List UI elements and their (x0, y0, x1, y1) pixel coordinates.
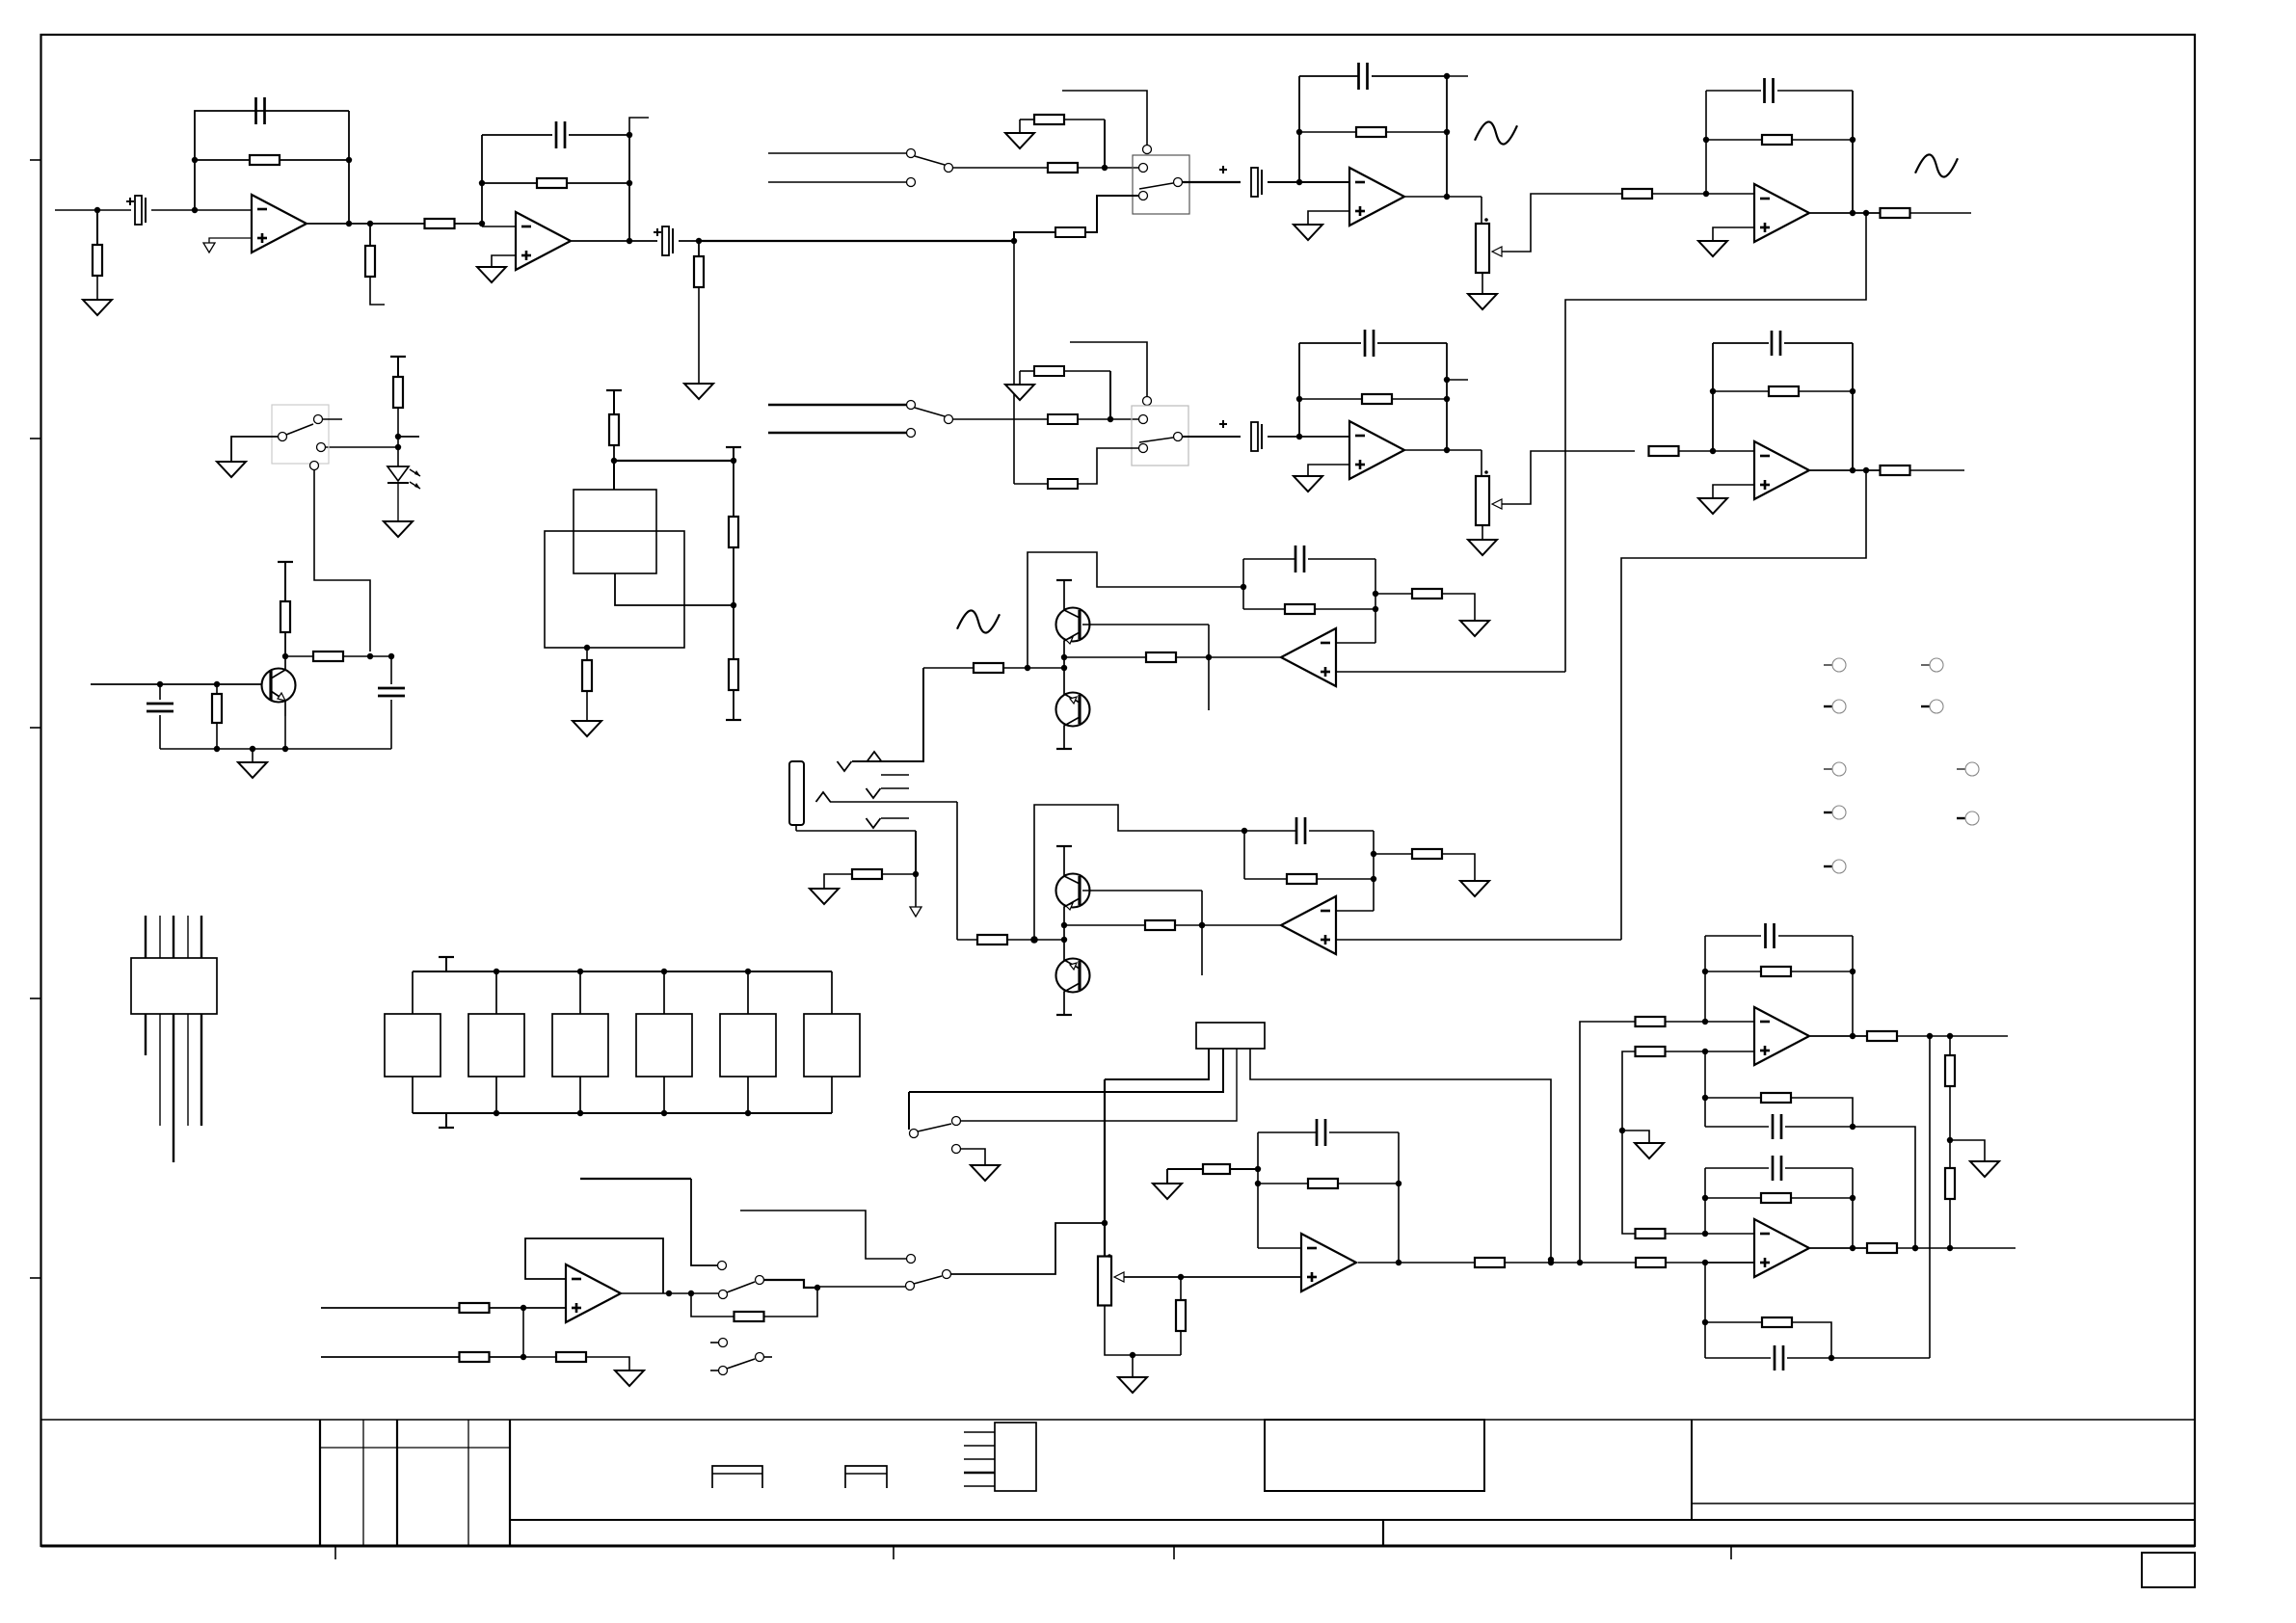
wire output 3b (1405, 449, 1482, 451)
wire lower RC (1704, 1263, 1706, 1358)
op-amp U6b (1281, 896, 1336, 954)
wire main bus (699, 240, 1014, 242)
wire (1268, 436, 1349, 438)
resistor R29 (1064, 656, 1146, 658)
ground (1005, 385, 1034, 400)
op-amp U6a (1281, 628, 1336, 686)
wire feedback tap (1028, 552, 1243, 668)
wire noninverting ground (209, 238, 252, 243)
ground (615, 1370, 644, 1386)
wire output 3 (1405, 196, 1482, 198)
sine symbol (1915, 154, 1958, 176)
mute switch (908, 1092, 910, 1130)
resistor R24 (285, 655, 313, 657)
op-amp U9 (1754, 1219, 1809, 1277)
resistor R45 (1167, 1168, 1203, 1170)
wire (1268, 181, 1349, 183)
connector P1 (131, 958, 217, 1014)
wire emitter junction (1063, 657, 1065, 673)
resistor R48 (1636, 1017, 1666, 1026)
resistor R52 (1705, 1097, 1761, 1099)
resistor R7 (953, 167, 1048, 169)
resistor R50 (1636, 1047, 1666, 1056)
capacitor block X6 (804, 1014, 860, 1077)
wire stage4b to headphone loop (1621, 470, 1866, 940)
capacitor C1 (135, 196, 142, 225)
wire plus (1705, 1262, 1754, 1264)
capacitor C6 (1299, 75, 1358, 77)
potentiometer RV3 (1104, 1223, 1106, 1257)
wire feedback rail 7L (1257, 1132, 1259, 1248)
transistor Q3 (1056, 693, 1090, 727)
wire tap (580, 1178, 691, 1180)
wire input (55, 209, 131, 211)
wire input line B2 (768, 432, 906, 434)
wire output 4b (1810, 469, 1880, 471)
wire emitter bus (160, 748, 391, 750)
resistor R39 (321, 1307, 460, 1309)
capacitor C2 (254, 97, 257, 124)
wire pot bottom (1105, 1305, 1181, 1355)
wire output U10 (622, 1292, 718, 1294)
ground (1005, 133, 1034, 148)
capacitor C3 (482, 134, 552, 136)
wire feedback left rail (195, 111, 349, 210)
divider resistors (1949, 1036, 1951, 1055)
sine symbol (957, 610, 1000, 632)
supply T right (726, 446, 741, 448)
wire ground tap (1622, 1131, 1649, 1143)
capacitor C13 (1243, 558, 1295, 560)
title box (1265, 1420, 1484, 1491)
wire U8 minus feed (1580, 1022, 1635, 1263)
ground (384, 521, 413, 537)
capacitor C11 (159, 684, 161, 700)
wire (817, 1286, 905, 1288)
transistor Q4 (1056, 874, 1090, 908)
supply T (606, 389, 622, 391)
resistor R44 (1258, 1183, 1308, 1184)
resistor R49 (1705, 971, 1761, 972)
resistor R17 (1299, 398, 1362, 400)
switch lever S1 (1139, 183, 1173, 189)
wire output column A (1929, 1036, 1931, 1358)
ground (971, 1165, 1000, 1181)
ground (810, 889, 839, 904)
wire noninverting ground 2 (492, 255, 516, 267)
switch box S2 (1132, 406, 1188, 466)
resistor R37 (882, 873, 916, 875)
wire base rail 2 (1201, 891, 1203, 975)
wire NO contact (764, 1280, 817, 1288)
wire feedback rail 4L (1705, 91, 1707, 194)
ground (1153, 1184, 1182, 1199)
resistor R2 (195, 159, 250, 161)
aux circles (710, 1342, 718, 1344)
resistor R56 (1705, 1321, 1762, 1323)
node stage2 in (479, 221, 485, 226)
capacitor block X2 (468, 1014, 524, 1077)
switch lever S2 (1139, 438, 1173, 442)
resistor R18 (1649, 446, 1679, 456)
wire feedback right rail 2 (628, 135, 630, 241)
resistor R21 (393, 377, 403, 408)
ground (1460, 621, 1489, 636)
wire wiper (1124, 1276, 1301, 1278)
op-amp U8 (1754, 1007, 1809, 1065)
switch lever (914, 1276, 942, 1284)
wire (1853, 1127, 1915, 1248)
wire output U7 (1358, 1262, 1475, 1264)
wire ground tap (1950, 1140, 1985, 1161)
wire sleeve down (915, 831, 917, 874)
capacitor C16 (1705, 935, 1761, 937)
wire port arrow (915, 874, 917, 907)
wire emitter junction 2 (1063, 925, 1065, 940)
op-amp U5a (1754, 184, 1809, 242)
resistor R26 (733, 461, 734, 517)
capacitor C4 (662, 226, 669, 255)
wire to pot (1481, 197, 1482, 224)
wire feedback rail 4R (1852, 91, 1854, 213)
resistor R8 (1020, 119, 1034, 120)
wire out down (691, 1293, 734, 1317)
wire pin1 (1105, 1049, 1209, 1079)
wire pin3 (961, 1049, 1237, 1121)
sine symbol (1475, 121, 1517, 144)
op-amp U7 (1301, 1234, 1356, 1291)
supply T (1056, 1014, 1072, 1016)
capacitor block X3 (552, 1014, 608, 1077)
wire noninverting 2 (1336, 939, 1621, 941)
capacitor C8 (1251, 422, 1258, 451)
wire mid RC (1704, 1051, 1706, 1098)
resistor R10 (1299, 131, 1356, 133)
wire feedback rail 9R (1852, 1168, 1854, 1248)
switch lever (915, 156, 945, 165)
resistor R23 (282, 653, 288, 659)
resistor R22 (216, 684, 218, 693)
connector small (995, 1423, 1036, 1491)
resistor R25 (609, 414, 619, 445)
capacitor C17 (1704, 1098, 1706, 1127)
ground (1460, 881, 1489, 896)
resistor R31 (1243, 608, 1285, 610)
wire output (307, 223, 425, 225)
switch box S3 (272, 405, 329, 464)
box B (545, 531, 684, 648)
ground (477, 267, 506, 282)
switch lever 2 (915, 408, 945, 416)
wire feedback left rail 2 (481, 135, 483, 226)
wire (1166, 1169, 1168, 1184)
resistor R46 (1475, 1258, 1505, 1267)
resistor R14 (953, 418, 1048, 420)
jack tip contact (838, 761, 852, 771)
wire feedback rail 5R (1375, 559, 1376, 643)
wire output U9 (1810, 1247, 1867, 1249)
ground (83, 300, 112, 315)
capacitor C12 (390, 656, 392, 684)
bracket symbol 2 (845, 1466, 887, 1488)
capacitor block X5 (720, 1014, 776, 1077)
wire switch out (1183, 181, 1241, 183)
wire output 4 (1810, 212, 1880, 214)
title block (41, 1419, 2196, 1421)
switch lever S3 (286, 424, 313, 435)
corner box (2142, 1553, 2195, 1587)
node input (94, 207, 100, 213)
wire bus down to ch2 (1013, 241, 1015, 484)
op-amp U1 (252, 195, 307, 253)
resistor R54 (1636, 1229, 1666, 1238)
resistor R55 (1867, 1243, 1897, 1253)
ground (1635, 1143, 1664, 1158)
resistor R36 to ground (1374, 853, 1412, 855)
wire relay feed (1062, 91, 1147, 145)
jack sleeve contact (867, 818, 881, 828)
wire to relay column (951, 1223, 1105, 1274)
wire NC path (1085, 196, 1138, 232)
wire noninverting ground 4 (1308, 211, 1349, 225)
wire feedback rail 6R (1373, 831, 1375, 911)
ground (1970, 1161, 1999, 1177)
resistor R40 (321, 1356, 460, 1358)
op-amp U2 (482, 226, 516, 227)
wire feedback right rail (348, 111, 350, 224)
supply T (1056, 845, 1072, 847)
box A (574, 490, 656, 573)
resistor R1 (96, 210, 98, 245)
test point circles (1824, 664, 1832, 666)
supply T (390, 356, 406, 358)
wire base (1082, 624, 1209, 625)
capacitor C19 (1705, 1357, 1771, 1359)
resistor R4 (425, 219, 455, 228)
transistor Q1 (262, 669, 296, 703)
wire input line B (768, 181, 906, 183)
wire pot bottom (1482, 273, 1483, 294)
capacitor C14 (1244, 830, 1296, 832)
ground (252, 749, 254, 762)
wire relay feed (740, 1211, 906, 1259)
wire feedback rail 4L b (1712, 343, 1714, 451)
resistor R16 (1048, 479, 1078, 489)
switch lever (719, 1290, 728, 1299)
supply T bottom (726, 719, 741, 721)
wire wiper (1502, 194, 1622, 252)
wire feedback tap 2 (1034, 805, 1244, 940)
wire feedback rail 3R b (1446, 343, 1448, 450)
wire cross couple column (1622, 1051, 1635, 1234)
wire feedback rail 9L (1704, 1168, 1706, 1234)
resistor R51 (1867, 1031, 1897, 1041)
wire main column (1104, 1079, 1106, 1223)
wire NC path 2 (1078, 448, 1138, 484)
capacitor C7 (1706, 90, 1761, 92)
wire feedback rail 4R b (1852, 343, 1854, 470)
capacitor block X1 (385, 1014, 441, 1077)
resistor R20 (1881, 466, 1910, 475)
wire pin2 (909, 1049, 1223, 1092)
resistor R53 (1705, 1197, 1761, 1199)
capacitor C5 (1251, 168, 1258, 197)
switch box S1 (1133, 155, 1189, 214)
ground (1132, 1355, 1134, 1377)
wire stage4 to headphone loop (1565, 213, 1866, 672)
resistor R33 (1064, 924, 1145, 926)
wire base (1082, 890, 1202, 891)
resistor R41 (523, 1356, 556, 1358)
wire to pot 2 (1481, 450, 1482, 476)
op-amp U4b (1349, 421, 1404, 479)
resistor R13 (1881, 208, 1910, 218)
wire to jack tip (852, 668, 923, 761)
wire switch to Q1 area (314, 470, 370, 652)
op-amp U5b (1754, 441, 1809, 499)
wire noninverting ground (1308, 465, 1349, 476)
resistor R32 to ground (1375, 593, 1412, 595)
resistor R34 out (957, 939, 977, 941)
resistor R9 (1055, 227, 1085, 237)
wire feedback rail 3R (1446, 76, 1448, 197)
op-amp U4 (1349, 168, 1404, 226)
wire common to ground (231, 437, 278, 462)
wire (1831, 1357, 1930, 1359)
resistor R42 (734, 1312, 764, 1321)
jack ring contact (816, 792, 831, 802)
capacitor bank rails (413, 971, 832, 972)
wire stub (629, 118, 649, 135)
wire feedback rail 6L (1243, 831, 1245, 879)
capacitor C9 (1299, 342, 1361, 344)
wire input line A2 (768, 404, 906, 406)
transistor Q5 (1056, 959, 1090, 993)
resistor R6 (698, 241, 700, 256)
resistor R19 (1713, 390, 1769, 392)
wire (522, 1308, 524, 1357)
wire plus input (1635, 1051, 1705, 1052)
wire (679, 240, 699, 242)
capacitor C10 (1713, 342, 1769, 344)
resistor R15 (1020, 370, 1034, 372)
supply T (278, 561, 293, 563)
LED D1 (387, 466, 409, 481)
wire feedback rail 8L (1704, 936, 1706, 1022)
ground (1468, 294, 1497, 309)
wire noninverting ground (1713, 227, 1754, 241)
relay K1 (1196, 1023, 1265, 1049)
terminal T bottom (445, 1113, 447, 1128)
wire output (1209, 656, 1280, 658)
wire (1109, 371, 1111, 419)
wire (1104, 120, 1106, 168)
potentiometer RV1 (1476, 224, 1489, 273)
wire feedback rail 3L (1298, 76, 1300, 182)
wire to switch (326, 446, 398, 448)
wire switch out 2 (1183, 436, 1241, 438)
wire feedback rail 3L b (1298, 343, 1300, 437)
wire noninverting ground (1713, 485, 1754, 498)
wire stub (323, 418, 342, 420)
wire (614, 460, 734, 462)
capacitor C18 (1705, 1167, 1769, 1169)
op-amp U10 (566, 1264, 621, 1322)
wire relay feed 2 (1070, 342, 1147, 396)
bracket symbol 1 (712, 1466, 762, 1488)
wire feedback rail 5L (1242, 559, 1244, 609)
wire LED cathode (397, 483, 399, 521)
capacitor block X4 (636, 1014, 692, 1077)
resistor R27 (729, 659, 738, 690)
wire box A bottom (615, 573, 734, 605)
wire pot bottom 2 (1482, 525, 1483, 540)
resistor R47 (1636, 1258, 1666, 1267)
resistor R11 (1622, 189, 1652, 199)
supply T (1056, 579, 1072, 581)
wire relay NC contact (691, 1179, 717, 1265)
wire output 2 (1202, 924, 1280, 926)
transistor Q2 (1056, 608, 1090, 642)
resistor R12 (1706, 139, 1762, 141)
wire (151, 209, 252, 211)
wire output 2 (572, 240, 657, 242)
wire feedback rail 7R (1398, 1132, 1400, 1263)
ground (1468, 540, 1497, 555)
node (696, 238, 702, 244)
ground (684, 384, 713, 399)
wire feedback loop (525, 1238, 663, 1293)
wire emitter (284, 716, 286, 749)
resistor R30 out (923, 667, 974, 669)
wire wiper 2 (1502, 451, 1635, 504)
supply T (1056, 748, 1072, 750)
wire feedback rail 8R (1852, 936, 1854, 1036)
resistor R5 (482, 182, 537, 184)
resistor R3 (369, 224, 371, 246)
wire base line (91, 683, 262, 685)
node (395, 434, 401, 439)
jack connector J1 (789, 761, 804, 825)
resistor R35 (1244, 878, 1287, 880)
potentiometer RV2 (1476, 476, 1489, 525)
wire minus (1705, 1233, 1754, 1235)
resistor R43 (1180, 1277, 1182, 1300)
capacitor C15 (1258, 1131, 1317, 1133)
ground (573, 721, 601, 736)
terminal T top (445, 957, 447, 971)
wire ring to ch2 (956, 802, 958, 940)
wire noninverting (1336, 671, 1565, 673)
wire base rail (1208, 625, 1210, 710)
resistor R28 (584, 645, 590, 651)
wire stub (398, 436, 419, 438)
wire input line A (768, 152, 906, 154)
wire output U8 (1810, 1035, 1867, 1037)
wire pin4 (1250, 1049, 1551, 1260)
